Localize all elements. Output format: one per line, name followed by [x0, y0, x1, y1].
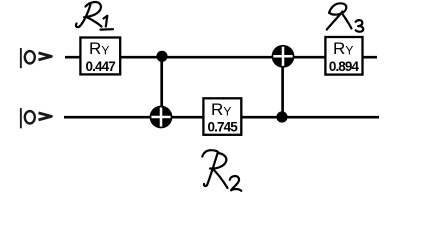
wire q1	[64, 116, 379, 119]
control dot CNOT1	[156, 51, 167, 62]
svg-text:0.447: 0.447	[86, 59, 116, 74]
wire CNOT2 vertical	[281, 56, 284, 117]
handwritten label R2	[202, 150, 241, 191]
gate RY 0.745 box	[203, 98, 241, 135]
gate RY 0.894 box	[325, 37, 362, 75]
CNOT1 target	[150, 106, 173, 129]
handwritten label R3	[327, 3, 363, 31]
handwritten label R1	[76, 2, 113, 30]
control dot CNOT2	[276, 111, 287, 122]
qubit label q1	[20, 108, 52, 128]
qubit label q0	[20, 48, 52, 68]
svg-text:0.745: 0.745	[208, 120, 239, 135]
svg-text:0.894: 0.894	[329, 59, 360, 74]
wire q0	[65, 56, 377, 59]
wire CNOT1 vertical	[160, 56, 163, 117]
CNOT2 target	[272, 45, 295, 68]
gate RY 0.447 box	[80, 38, 120, 75]
